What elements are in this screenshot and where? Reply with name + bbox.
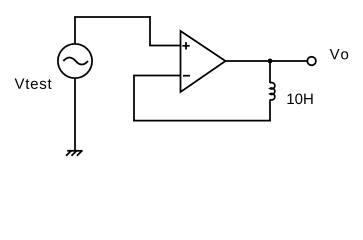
terminal Vo (307, 57, 316, 66)
node output junction (268, 59, 273, 64)
label Vtest (15, 78, 52, 88)
op-amp U1 (181, 31, 226, 92)
wire to + input (149, 45, 180, 47)
voltage source Vtest (58, 44, 92, 78)
wire feedback bottom (133, 120, 271, 122)
wire node to inductor (269, 61, 271, 83)
wire source top (74, 17, 76, 44)
ground (66, 150, 82, 155)
wire source bottom (74, 78, 76, 151)
wire top horizontal (74, 16, 151, 18)
wire feedback left down (133, 75, 135, 122)
wire feedback right up (269, 100, 271, 122)
inductor L1 (270, 83, 275, 100)
op-amp U1 noninverting pin + (182, 42, 189, 49)
label Vo (330, 49, 349, 59)
wire inverting input (134, 75, 181, 77)
wire op-amp output (226, 60, 307, 62)
wire down to noninverting corner (149, 16, 151, 45)
label 10H (287, 94, 312, 105)
op-amp U1 inverting pin - (183, 75, 190, 77)
